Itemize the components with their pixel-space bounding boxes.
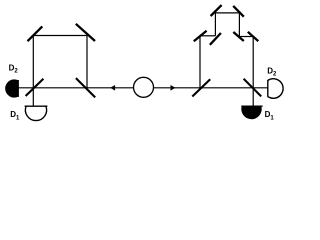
- detector D2 (right, open): [268, 79, 283, 99]
- wire: left square right side: [86, 36, 88, 88]
- wire: vertical from BS2 down to detector D1 (right): [252, 88, 254, 106]
- mirror M1 (left square top-left, "/"): [28, 26, 43, 41]
- wire: vertical from top square down to M6: [238, 13, 240, 37]
- wire: vertical from M4 up to top square: [214, 13, 216, 36]
- mirror M2 (left square top-right, "\"): [76, 24, 95, 41]
- beamsplitter BS1 (right structure, "/"): [192, 79, 210, 96]
- mirror M3 (right lower-left, "/"): [194, 31, 207, 42]
- mirror M4 (right mid-left, "/"): [210, 33, 221, 45]
- wire: right riser from BS1 up to mid level: [199, 36, 201, 88]
- detector D1 (right, filled): [241, 106, 261, 119]
- wire: top square top side: [215, 12, 239, 14]
- mirror M5a (top square top-left, "/"): [211, 5, 222, 16]
- beamsplitter BS-b (left square bottom-left, "/"): [26, 79, 44, 96]
- beamsplitter BS2 (right structure, "\"): [244, 79, 262, 97]
- wire: right riser from M7 down to BS2: [252, 37, 254, 88]
- wire: mid horizontal between M6 and M7: [239, 36, 253, 38]
- wire: left square left side: [32, 36, 34, 88]
- arrow right (beam direction marker): [171, 85, 176, 91]
- detector D1 (left, open): [25, 105, 48, 107]
- beamsplitter BS-a (left square bottom-right, "\"): [76, 78, 95, 97]
- wire: left square top side: [33, 35, 87, 37]
- arrow left (beam direction marker): [110, 85, 115, 91]
- source S (circle): [134, 77, 154, 97]
- mirror M7 (right lower-right, "\"): [248, 32, 258, 41]
- wire: mid horizontal between M3 and M4: [200, 35, 215, 37]
- detector D2 (left, filled): [5, 79, 18, 97]
- mirror M6 (right mid-right, "\"): [233, 32, 244, 41]
- wire: main horizontal beam line from D2-left to D2-right: [18, 87, 268, 89]
- mirror M5b (top square top-right, "\"): [233, 6, 244, 17]
- wire: vertical from BS to detector D1 (left): [32, 88, 34, 106]
